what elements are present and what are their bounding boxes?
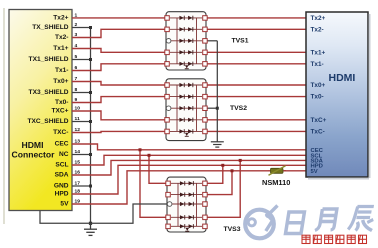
svg-text:Tx0+: Tx0+ <box>311 82 326 89</box>
HDMI sink pin labels <box>311 15 327 135</box>
watermark logo circle <box>245 206 277 239</box>
HDMI sink block U1 <box>306 12 371 180</box>
svg-text:TX3_SHIELD: TX3_SHIELD <box>29 89 69 96</box>
svg-text:CEC: CEC <box>55 141 69 148</box>
watermark char ri <box>286 212 305 234</box>
wire: TVS3 row1 to HPD bus <box>206 164 224 184</box>
ground symbol G2 <box>211 142 224 147</box>
svg-text:TVS1: TVS1 <box>232 38 249 45</box>
svg-text:TX1_SHIELD: TX1_SHIELD <box>29 56 69 63</box>
wire: 5V pin19 to bus (through NSM110) <box>72 171 307 204</box>
wire: Tx2- pin3 to TVS1 <box>72 29 166 37</box>
svg-text:NSM110: NSM110 <box>262 178 290 187</box>
svg-text:HPD: HPD <box>55 191 69 198</box>
wire: SCL bus tap to TVS3 row1 <box>148 154 168 184</box>
svg-text:HDMI: HDMI <box>329 72 356 84</box>
page edge line <box>3 8 5 224</box>
svg-text:TVS3: TVS3 <box>224 226 241 233</box>
svg-text:TXC-: TXC- <box>53 129 68 136</box>
label TVS1 <box>232 38 249 45</box>
wire: TxC- pin12 to TVS2 <box>72 131 166 132</box>
wire: TVS3 row2 to 5V bus <box>206 169 234 194</box>
wire: TVS1 outputs to HDMI sink <box>206 18 307 64</box>
svg-text:TX_SHIELD: TX_SHIELD <box>32 24 69 31</box>
wire: Tx2+ pin1 to TVS1 <box>72 17 166 19</box>
wire: Tx0+ pin7 to TVS2 <box>72 82 166 86</box>
svg-text:Tx0-: Tx0- <box>55 99 69 106</box>
wire: CEC bus tap to TVS3 row4 <box>139 148 168 217</box>
wire: TVS3 row4 to SDA bus <box>206 159 242 217</box>
svg-text:Tx2+: Tx2+ <box>311 15 326 22</box>
svg-text:GND: GND <box>54 183 69 190</box>
wire: CEC pin13 to bus <box>72 144 307 150</box>
wire: HPD pin18 to bus <box>72 165 307 194</box>
TVS diode array TVS2 <box>165 79 207 141</box>
svg-text:Tx0-: Tx0- <box>311 94 324 101</box>
wire: Tx1- pin6 to TVS1 <box>72 64 166 71</box>
wire: shield/ground bus vertical <box>90 28 92 224</box>
svg-text:Tx2+: Tx2+ <box>53 15 68 22</box>
ground symbol G1 <box>84 223 97 235</box>
connector title "HDMI Connector" <box>12 140 56 160</box>
wire: shield pin stubs (pins 2,5,8,11,14,17) <box>72 28 91 187</box>
wire: Tx1+ pin4 to TVS1 <box>72 49 166 53</box>
svg-text:TxC-: TxC- <box>311 128 325 135</box>
svg-text:5V: 5V <box>60 201 69 208</box>
wire: TVS1/TVS2 ground pins to ground G2 <box>206 41 219 142</box>
svg-text:Tx1-: Tx1- <box>55 67 69 74</box>
watermark red company text <box>302 235 367 243</box>
label TVS3 <box>224 226 241 233</box>
svg-text:Tx0+: Tx0+ <box>53 78 68 85</box>
wire: TxC+ pin10 to TVS2 <box>72 111 166 120</box>
label NSM110 <box>262 178 290 187</box>
svg-text:Tx1+: Tx1+ <box>311 49 326 56</box>
svg-text:TXC+: TXC+ <box>51 108 68 115</box>
fuse/suppressor NSM110 <box>268 166 286 175</box>
TVS diode array TVS1 <box>165 12 207 70</box>
wire: SCL pin15 to bus <box>72 155 307 165</box>
wire: Tx0- pin9 to TVS2 <box>72 97 166 103</box>
svg-text:NC: NC <box>59 151 69 158</box>
HDMI connector J1 body <box>9 10 72 211</box>
svg-text:TXC_SHIELD: TXC_SHIELD <box>27 118 68 125</box>
svg-text:Tx2-: Tx2- <box>311 26 324 33</box>
svg-text:Tx1-: Tx1- <box>311 61 324 68</box>
wire: connector shell stub to ground <box>40 211 91 224</box>
svg-text:Tx2-: Tx2- <box>55 34 69 41</box>
svg-text:TxC+: TxC+ <box>311 117 327 124</box>
svg-text:SDA: SDA <box>55 172 69 179</box>
svg-text:Connector: Connector <box>12 150 56 160</box>
watermark char chen <box>348 207 376 231</box>
connector pin name labels <box>27 15 69 208</box>
svg-text:HDMI: HDMI <box>22 140 44 150</box>
TVS diode array TVS3 <box>166 177 207 232</box>
svg-text:SCL: SCL <box>55 162 68 169</box>
svg-text:Tx1+: Tx1+ <box>53 45 68 52</box>
wire: ground to TVS3 row3 <box>91 204 168 223</box>
label HDMI <box>329 72 356 84</box>
connector pin numbers 1-19 <box>75 12 81 204</box>
wire: SDA pin16 to bus <box>72 160 307 175</box>
svg-text:TVS2: TVS2 <box>230 105 247 112</box>
label TVS2 <box>230 105 247 112</box>
wire: TVS2 outputs to HDMI sink <box>206 85 307 131</box>
junction dots on ground bus <box>89 26 92 225</box>
svg-text:5V: 5V <box>311 169 318 175</box>
watermark char yue <box>315 209 337 231</box>
